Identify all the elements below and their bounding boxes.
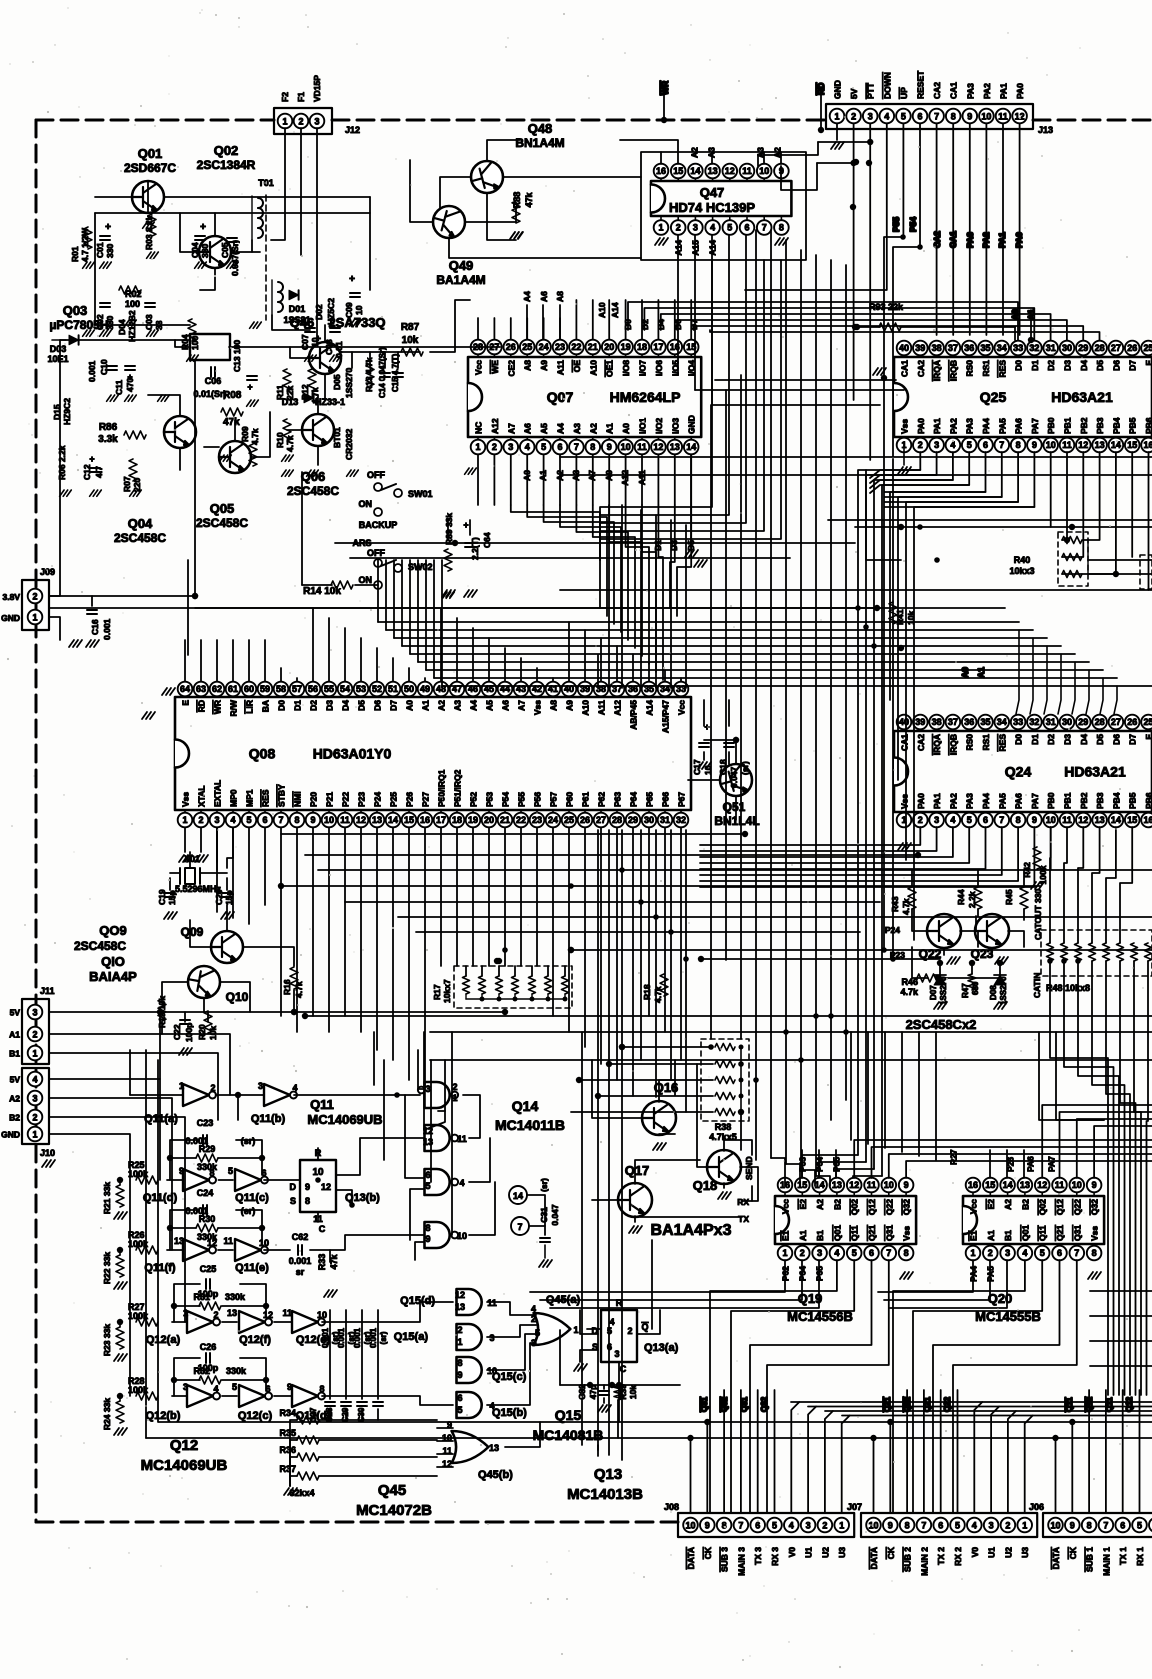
svg-text:Vss: Vss [181, 792, 191, 807]
svg-text:35: 35 [980, 717, 990, 727]
svg-text:38: 38 [932, 343, 942, 353]
svg-text:B1: B1 [1003, 1230, 1013, 1241]
svg-text:4: 4 [525, 442, 530, 452]
svg-text:CA2: CA2 [932, 82, 942, 99]
svg-text:7: 7 [278, 815, 283, 825]
svg-text:8: 8 [722, 1521, 727, 1531]
svg-text:30: 30 [1062, 343, 1072, 353]
svg-text:P20: P20 [309, 792, 319, 807]
svg-text:63: 63 [196, 684, 206, 694]
svg-text:PA3: PA3 [965, 83, 975, 99]
svg-text:6: 6 [1120, 1521, 1125, 1531]
svg-text:10: 10 [317, 1310, 327, 1320]
svg-text:10kx3: 10kx3 [1009, 566, 1034, 576]
svg-text:40: 40 [899, 717, 909, 727]
svg-text:33: 33 [1013, 343, 1023, 353]
svg-text:C16: C16 [90, 619, 100, 635]
svg-text:P66: P66 [661, 792, 671, 807]
svg-text:4: 4 [950, 815, 955, 825]
svg-text:27: 27 [1111, 717, 1121, 727]
svg-text:16: 16 [1143, 440, 1152, 450]
svg-text:HD63A21: HD63A21 [1064, 764, 1126, 780]
svg-text:5: 5 [541, 442, 546, 452]
svg-text:D3: D3 [325, 700, 335, 711]
svg-text:2: 2 [213, 1310, 218, 1320]
svg-text:RX 1: RX 1 [1135, 1547, 1145, 1566]
svg-text:C25: C25 [200, 1264, 217, 1274]
svg-text:C: C [319, 1224, 326, 1234]
svg-text:5: 5 [901, 112, 906, 122]
svg-text:4: 4 [459, 1178, 464, 1188]
svg-text:6: 6 [425, 1170, 430, 1180]
svg-text:PA2: PA2 [948, 418, 958, 434]
svg-text:J13: J13 [1038, 125, 1053, 135]
svg-text:4.7k: 4.7k [294, 981, 304, 998]
svg-text:R86: R86 [99, 422, 118, 433]
svg-text:Q32: Q32 [902, 1199, 912, 1215]
svg-text:6: 6 [983, 440, 988, 450]
svg-text:6: 6 [262, 815, 267, 825]
svg-text:26: 26 [580, 815, 590, 825]
svg-text:RS1: RS1 [981, 360, 991, 377]
svg-text:E2: E2 [986, 1199, 996, 1210]
svg-text:2: 2 [198, 815, 203, 825]
svg-text:4: 4 [1022, 1248, 1027, 1258]
svg-text:A7: A7 [517, 700, 527, 711]
svg-text:A10: A10 [597, 302, 607, 318]
svg-text:PA0: PA0 [1015, 83, 1025, 99]
svg-text:56: 56 [308, 684, 318, 694]
svg-text:5: 5 [535, 1328, 540, 1338]
svg-text:C22: C22 [172, 1024, 182, 1040]
svg-text:A5: A5 [485, 700, 495, 711]
svg-text:CA2: CA2 [916, 734, 926, 751]
svg-text:R33: R33 [317, 1254, 327, 1271]
svg-text:15: 15 [404, 815, 414, 825]
svg-text:13: 13 [227, 1308, 237, 1318]
svg-text:2: 2 [822, 1521, 827, 1531]
svg-text:D7: D7 [1128, 734, 1138, 745]
svg-text:3: 3 [614, 1349, 619, 1359]
svg-text:10: 10 [621, 442, 631, 452]
svg-text:PA0: PA0 [1014, 232, 1024, 248]
svg-text:P51/IRQ2: P51/IRQ2 [453, 769, 463, 807]
svg-text:D05: D05 [332, 374, 342, 390]
svg-text:D4: D4 [1079, 734, 1089, 745]
svg-text:Q07: Q07 [547, 389, 574, 405]
svg-text:SUB 3: SUB 3 [720, 1547, 730, 1572]
svg-text:RES: RES [261, 789, 271, 807]
svg-text:64: 64 [180, 684, 190, 694]
svg-text:3: 3 [508, 442, 513, 452]
svg-text:0.001: 0.001 [289, 1256, 312, 1266]
svg-text:IRQA: IRQA [932, 360, 942, 381]
svg-text:D: D [290, 1182, 297, 1192]
svg-text:7: 7 [1103, 1521, 1108, 1531]
svg-text:52: 52 [372, 684, 382, 694]
svg-text:6: 6 [1057, 1248, 1062, 1258]
svg-text:5: 5 [425, 1181, 430, 1191]
svg-text:Q11: Q11 [1065, 1397, 1074, 1412]
svg-text:B2: B2 [1020, 1199, 1030, 1210]
svg-text:14: 14 [686, 442, 696, 452]
svg-text:3: 3 [1005, 1248, 1010, 1258]
svg-text:+: + [200, 222, 206, 233]
svg-text:PB3: PB3 [1095, 792, 1105, 809]
svg-text:30: 30 [1062, 717, 1072, 727]
svg-text:1: 1 [32, 613, 37, 623]
svg-text:MAIN 2: MAIN 2 [919, 1547, 929, 1576]
svg-text:2: 2 [32, 1113, 37, 1123]
svg-text:CA1: CA1 [900, 734, 910, 751]
svg-text:C23: C23 [197, 1118, 214, 1128]
svg-text:Q31: Q31 [884, 1225, 894, 1241]
svg-text:C04: C04 [190, 242, 200, 258]
svg-text:5: 5 [955, 1521, 960, 1531]
svg-text:5: 5 [727, 223, 732, 233]
svg-text:8: 8 [1087, 1521, 1092, 1531]
svg-text:PA4: PA4 [981, 418, 991, 434]
svg-text:J12: J12 [345, 125, 360, 135]
svg-text:R09: R09 [240, 426, 250, 442]
svg-text:R08: R08 [223, 390, 242, 401]
svg-text:C62: C62 [292, 1232, 309, 1242]
svg-text:9: 9 [904, 1180, 909, 1190]
svg-text:A11: A11 [556, 360, 566, 375]
svg-text:A6: A6 [523, 423, 533, 434]
svg-text:QO9: QO9 [99, 923, 126, 938]
svg-text:D2: D2 [309, 700, 319, 711]
svg-text:IRQB: IRQB [948, 734, 958, 755]
svg-text:3: 3 [934, 440, 939, 450]
svg-text:51: 51 [388, 684, 398, 694]
svg-text:Q24: Q24 [1005, 764, 1032, 780]
svg-text:(sr): (sr) [241, 1136, 256, 1146]
svg-text:16: 16 [968, 1180, 978, 1190]
svg-text:D01: D01 [289, 304, 306, 314]
svg-text:R11: R11 [275, 385, 285, 400]
svg-text:10: 10 [981, 112, 991, 122]
svg-text:R93 22k: R93 22k [869, 302, 904, 312]
svg-text:J06: J06 [1029, 1502, 1044, 1512]
svg-text:3: 3 [489, 1333, 494, 1343]
svg-text:HZ9C2: HZ9C2 [62, 398, 72, 425]
svg-text:PB1: PB1 [1063, 792, 1073, 809]
svg-text:8: 8 [1016, 815, 1021, 825]
svg-text:5V: 5V [10, 1075, 21, 1085]
svg-text:16: 16 [656, 166, 666, 176]
svg-text:CA1: CA1 [949, 82, 959, 99]
svg-text:BN1A4M: BN1A4M [515, 136, 564, 150]
svg-text:0.001: 0.001 [321, 1327, 330, 1348]
svg-text:C27: C27 [309, 1407, 318, 1422]
svg-text:A1: A1 [605, 423, 615, 434]
svg-text:5: 5 [852, 1248, 857, 1258]
svg-text:Q21: Q21 [883, 1396, 892, 1412]
svg-text:R31: R31 [193, 1292, 210, 1302]
svg-text:Q48: Q48 [528, 121, 553, 136]
svg-text:R40: R40 [1014, 555, 1031, 565]
svg-text:54: 54 [340, 684, 350, 694]
svg-text:C02: C02 [95, 314, 105, 330]
svg-text:24: 24 [539, 342, 549, 352]
svg-text:PA2: PA2 [982, 83, 992, 99]
svg-text:6: 6 [744, 223, 749, 233]
svg-text:14: 14 [513, 1191, 523, 1201]
svg-text:TX 1: TX 1 [1118, 1547, 1128, 1565]
svg-text:1: 1 [970, 1248, 975, 1258]
svg-text:2SC458Cx2: 2SC458Cx2 [906, 1017, 977, 1032]
svg-text:Q15(c): Q15(c) [492, 1371, 527, 1383]
svg-text:D5: D5 [357, 700, 367, 711]
svg-text:U3: U3 [837, 1547, 847, 1558]
svg-text:Q18: Q18 [693, 1178, 718, 1193]
svg-text:29: 29 [1078, 717, 1088, 727]
svg-text:21: 21 [588, 342, 598, 352]
svg-text:Q11(e): Q11(e) [235, 1262, 269, 1274]
svg-text:2: 2 [627, 1326, 632, 1336]
svg-text:Q47: Q47 [700, 185, 725, 200]
svg-text:I/O7: I/O7 [638, 360, 648, 376]
svg-text:C17: C17 [692, 759, 702, 775]
svg-text:1: 1 [182, 815, 187, 825]
svg-text:Q22: Q22 [903, 1396, 912, 1412]
svg-text:RX: RX [737, 1197, 749, 1207]
svg-text:BA: BA [261, 700, 271, 712]
svg-text:6: 6 [983, 815, 988, 825]
svg-text:7: 7 [574, 442, 579, 452]
svg-text:MC14072B: MC14072B [356, 1502, 432, 1519]
svg-text:HZ5C2: HZ5C2 [326, 298, 336, 325]
svg-text:Vss: Vss [900, 794, 910, 809]
svg-text:PA0: PA0 [916, 418, 926, 434]
svg-text:IRQA: IRQA [932, 734, 942, 755]
svg-text:A0: A0 [405, 700, 415, 711]
svg-text:Vcc: Vcc [474, 360, 484, 375]
svg-text:1: 1 [1022, 1521, 1027, 1531]
svg-text:Vss: Vss [1090, 1226, 1100, 1241]
svg-text:10: 10 [884, 1180, 894, 1190]
svg-text:9: 9 [1032, 440, 1037, 450]
svg-text:C10: C10 [99, 359, 109, 375]
svg-text:D0: D0 [1014, 734, 1024, 745]
svg-text:I/O1: I/O1 [638, 418, 648, 434]
svg-text:13: 13 [1095, 815, 1105, 825]
svg-text:7: 7 [738, 1521, 743, 1531]
svg-text:1: 1 [834, 112, 839, 122]
svg-text:CE2: CE2 [506, 360, 516, 377]
svg-text:F1: F1 [296, 92, 306, 102]
svg-text:A15/P47: A15/P47 [661, 700, 671, 733]
svg-text:3: 3 [183, 1382, 188, 1392]
svg-text:P54: P54 [908, 217, 918, 232]
svg-text:I/O8: I/O8 [621, 360, 631, 376]
svg-text:Q32: Q32 [720, 1396, 729, 1412]
svg-text:A6: A6 [501, 700, 511, 711]
svg-text:5: 5 [246, 815, 251, 825]
svg-text:9: 9 [705, 1521, 710, 1531]
svg-text:MC14013B: MC14013B [567, 1486, 643, 1503]
svg-text:1: 1 [475, 442, 480, 452]
svg-text:Vcc: Vcc [781, 1199, 791, 1214]
svg-text:C03: C03 [144, 314, 154, 330]
svg-text:(sr): (sr) [379, 1331, 388, 1344]
svg-text:Q12: Q12 [867, 1199, 877, 1215]
svg-text:8: 8 [590, 442, 595, 452]
svg-text:J11: J11 [40, 986, 55, 996]
svg-text:8: 8 [779, 223, 784, 233]
svg-text:U1: U1 [804, 1547, 814, 1558]
svg-text:23: 23 [555, 342, 565, 352]
svg-text:Q15(b): Q15(b) [492, 1407, 527, 1419]
svg-text:27: 27 [596, 815, 606, 825]
svg-text:10k: 10k [402, 335, 419, 346]
svg-text:CA2: CA2 [932, 231, 942, 248]
svg-text:14: 14 [815, 1180, 825, 1190]
svg-text:2: 2 [32, 592, 37, 602]
svg-text:470: 470 [125, 378, 135, 392]
svg-text:11: 11 [340, 815, 350, 825]
svg-text:CK: CK [703, 1546, 713, 1559]
svg-text:4: 4 [884, 112, 889, 122]
svg-text:R30: R30 [199, 1214, 216, 1224]
svg-text:13: 13 [174, 1236, 184, 1246]
svg-text:13: 13 [670, 442, 680, 452]
svg-text:HD63A21: HD63A21 [1051, 389, 1113, 405]
svg-text:3: 3 [258, 1081, 263, 1091]
svg-text:+: + [349, 274, 355, 285]
svg-text:1: 1 [179, 1081, 184, 1091]
svg-text:PA6: PA6 [1014, 418, 1024, 434]
svg-text:Q: Q [641, 1322, 648, 1332]
svg-text:18: 18 [637, 342, 647, 352]
svg-text:2: 2 [452, 1082, 457, 1092]
svg-text:WR: WR [213, 700, 223, 714]
svg-text:10E1: 10E1 [47, 354, 68, 364]
svg-text:SUB 2: SUB 2 [903, 1547, 913, 1572]
svg-text:A2: A2 [9, 1094, 20, 1104]
svg-text:C06: C06 [205, 376, 222, 386]
svg-text:21: 21 [500, 815, 510, 825]
svg-text:Q08: Q08 [249, 746, 276, 762]
svg-text:RES: RES [997, 360, 1007, 378]
svg-text:5: 5 [457, 1405, 462, 1415]
svg-text:11: 11 [282, 1308, 292, 1318]
svg-text:31: 31 [1046, 717, 1056, 727]
svg-text:9: 9 [967, 112, 972, 122]
svg-text:A12: A12 [490, 418, 500, 434]
svg-text:D1: D1 [293, 700, 303, 711]
svg-text:Vss: Vss [900, 419, 910, 434]
svg-text:2SC458C: 2SC458C [74, 939, 126, 953]
svg-text:10: 10 [324, 815, 334, 825]
svg-text:6: 6 [457, 1393, 462, 1403]
svg-text:A9: A9 [539, 360, 549, 371]
svg-text:100: 100 [125, 299, 140, 309]
svg-text:R21 33k: R21 33k [102, 1182, 112, 1214]
svg-text:1: 1 [452, 1093, 457, 1103]
svg-text:32: 32 [1029, 343, 1039, 353]
svg-text:GND: GND [687, 415, 697, 434]
svg-text:P26: P26 [405, 792, 415, 807]
svg-text:19: 19 [468, 815, 478, 825]
svg-text:P55: P55 [891, 217, 901, 232]
svg-text:2.2k: 2.2k [967, 891, 977, 908]
svg-text:8: 8 [319, 1384, 324, 1394]
svg-text:28: 28 [1095, 343, 1105, 353]
svg-text:R17: R17 [432, 984, 442, 1000]
svg-text:13: 13 [455, 1302, 465, 1312]
svg-text:4: 4 [789, 1521, 794, 1531]
svg-text:A4: A4 [469, 700, 479, 711]
svg-text:Q31: Q31 [1072, 1225, 1082, 1241]
svg-text:25: 25 [1143, 343, 1152, 353]
svg-text:P56: P56 [533, 792, 543, 807]
svg-text:3: 3 [314, 117, 319, 127]
svg-text:C24: C24 [197, 1188, 214, 1198]
svg-text:8: 8 [305, 1196, 310, 1206]
svg-text:28: 28 [612, 815, 622, 825]
svg-text:Q17: Q17 [625, 1163, 650, 1178]
svg-text:(er): (er) [241, 1206, 256, 1216]
svg-text:2: 2 [210, 1083, 215, 1093]
svg-text:A11: A11 [597, 700, 607, 715]
svg-text:A1: A1 [9, 1030, 20, 1040]
svg-text:PA4: PA4 [981, 793, 991, 809]
svg-text:U1: U1 [987, 1547, 997, 1558]
svg-text:0.001: 0.001 [369, 1327, 378, 1348]
svg-text:A1: A1 [976, 667, 986, 678]
svg-text:P57: P57 [549, 792, 559, 807]
svg-text:1SS270: 1SS270 [344, 367, 354, 398]
svg-text:28: 28 [1095, 717, 1105, 727]
svg-text:J08: J08 [664, 1502, 679, 1512]
svg-text:I/O2: I/O2 [654, 418, 664, 434]
svg-text:50: 50 [404, 684, 414, 694]
svg-text:R18: R18 [642, 984, 652, 1000]
svg-text:D0: D0 [277, 700, 287, 711]
svg-text:30: 30 [644, 815, 654, 825]
svg-text:PA2: PA2 [948, 793, 958, 809]
svg-text:Q02: Q02 [214, 143, 239, 158]
svg-text:2: 2 [851, 112, 856, 122]
svg-text:OFF: OFF [367, 548, 385, 558]
svg-text:0.001: 0.001 [337, 1327, 346, 1348]
svg-text:Q01: Q01 [832, 1225, 842, 1241]
svg-text:PA5: PA5 [997, 793, 1007, 809]
svg-text:15: 15 [797, 1180, 807, 1190]
svg-text:D7: D7 [1128, 360, 1138, 371]
svg-text:E1: E1 [969, 1230, 979, 1241]
svg-text:8: 8 [1016, 440, 1021, 450]
svg-text:10: 10 [259, 1238, 269, 1248]
svg-text:8: 8 [951, 112, 956, 122]
svg-text:10: 10 [457, 1231, 467, 1241]
svg-text:MAIN 3: MAIN 3 [736, 1547, 746, 1576]
svg-text:TX 3: TX 3 [753, 1547, 763, 1565]
svg-text:3: 3 [32, 1094, 37, 1104]
svg-text:A4: A4 [522, 291, 532, 302]
svg-text:R24 33k: R24 33k [102, 1398, 112, 1430]
svg-text:Vcc: Vcc [969, 1199, 979, 1214]
svg-text:Q11: Q11 [850, 1225, 860, 1241]
svg-text:6: 6 [755, 1521, 760, 1531]
svg-text:49: 49 [420, 684, 430, 694]
svg-text:P62: P62 [597, 792, 607, 807]
svg-text:P53: P53 [485, 792, 495, 807]
svg-text:14: 14 [1003, 1180, 1013, 1190]
svg-text:U2: U2 [820, 1547, 830, 1558]
